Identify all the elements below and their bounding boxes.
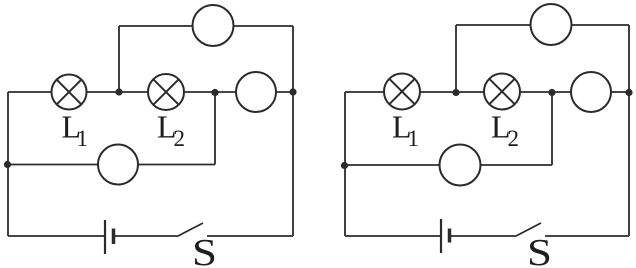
- wire left vertical (left circuit): [7, 92, 9, 236]
- svg-text:1: 1: [77, 126, 89, 151]
- meter branch (right circuit): [440, 145, 481, 186]
- wire top rail (left circuit): [119, 25, 293, 27]
- label L1 (right circuit): [392, 109, 419, 152]
- wire right vertical (right circuit): [628, 25, 630, 236]
- node B junction dot (left circuit): [211, 89, 218, 96]
- wire bottom middle segment (right circuit): [450, 235, 516, 237]
- wire bottom left segment (left circuit): [8, 235, 105, 237]
- wire branch horizontal (right circuit): [345, 164, 552, 166]
- switch S blade (left circuit): [177, 223, 203, 237]
- svg-text:S: S: [527, 232, 552, 268]
- wire bottom right segment (right circuit): [545, 235, 629, 237]
- lamp L1 (right circuit): [384, 74, 420, 110]
- switch S blade (right circuit): [515, 223, 541, 237]
- wire bottom middle segment (left circuit): [114, 235, 178, 237]
- meter top (left circuit): [193, 5, 234, 46]
- lamp L2 (right circuit): [484, 74, 520, 110]
- battery (left circuit): [105, 220, 114, 254]
- wire branch horizontal (left circuit): [8, 164, 215, 166]
- wire right vertical (left circuit): [292, 26, 294, 236]
- label L2 (left circuit): [157, 109, 185, 152]
- wire drop from node B (left circuit): [214, 92, 216, 165]
- meter right (right circuit): [571, 72, 611, 112]
- svg-text:2: 2: [174, 126, 186, 151]
- wire middle horizontal (left circuit): [8, 91, 293, 93]
- node D junction dot (left circuit): [4, 161, 11, 168]
- node B junction dot (right circuit): [548, 89, 555, 96]
- node C junction dot (left circuit): [289, 88, 296, 95]
- wire middle horizontal (right circuit): [345, 91, 629, 93]
- node A junction dot (left circuit): [115, 88, 122, 95]
- label L2 (right circuit): [491, 109, 519, 152]
- meter branch (left circuit): [98, 145, 138, 185]
- meter top (right circuit): [531, 4, 572, 45]
- svg-text:S: S: [192, 232, 217, 268]
- svg-text:1: 1: [408, 126, 420, 151]
- wire top rail (right circuit): [456, 24, 629, 26]
- wire bottom left segment (right circuit): [345, 235, 441, 237]
- lamp L2 (left circuit): [148, 74, 184, 110]
- meter right (left circuit): [236, 72, 276, 112]
- lamp L1 (left circuit): [52, 75, 87, 110]
- node D junction dot (right circuit): [341, 162, 348, 169]
- wire left vertical (right circuit): [344, 92, 346, 236]
- svg-text:2: 2: [508, 126, 520, 151]
- wire riser to top rail (right circuit): [455, 25, 457, 92]
- node A junction dot (right circuit): [452, 89, 459, 96]
- wire drop from node B (right circuit): [551, 92, 553, 165]
- node C junction dot (right circuit): [625, 89, 632, 96]
- wire bottom right segment (left circuit): [207, 235, 293, 237]
- wire riser to top rail (left circuit): [118, 26, 120, 92]
- battery (right circuit): [441, 219, 450, 253]
- label L1 (left circuit): [62, 109, 89, 152]
